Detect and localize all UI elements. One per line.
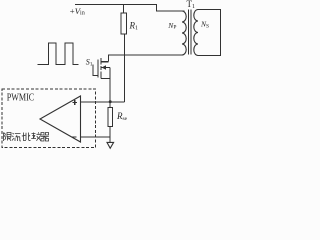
wire comparator minus input <box>81 136 110 138</box>
wire Rs top lead <box>109 102 111 108</box>
wire R1 top lead <box>123 5 125 14</box>
wire gate lead <box>93 65 98 76</box>
secondary winding Ns <box>194 10 198 56</box>
body stub with arrow <box>101 67 109 69</box>
resistor Rse <box>108 108 112 127</box>
wire R1 bottom lead to sense node (crosses drain line) <box>124 34 126 102</box>
core <box>188 10 190 55</box>
channel segment body <box>100 66 102 70</box>
node sense junction line <box>81 101 125 103</box>
器 <box>41 133 49 142</box>
op-amp U1 current-limit comparator <box>40 96 81 142</box>
minus input mark <box>72 136 77 138</box>
比 <box>22 133 31 141</box>
channel segment drain <box>100 58 102 64</box>
transformer T1 <box>167 0 220 56</box>
gate drive square wave <box>38 43 79 65</box>
PWM IC dashed box <box>2 89 96 148</box>
transistor Q1 MOSFET S1 <box>98 58 110 102</box>
wire drain line from primary to MOSFET <box>108 55 182 62</box>
label 限流比较器 (hand-drawn glyphs) <box>4 132 49 141</box>
ground <box>107 142 114 148</box>
流 <box>12 133 14 141</box>
较 <box>31 133 36 139</box>
resistor R1 <box>121 13 126 34</box>
channel segment source <box>100 72 102 79</box>
drain stub <box>101 61 108 63</box>
wire secondary loop <box>198 10 221 56</box>
node +Vin supply rail <box>75 5 185 12</box>
限 <box>4 133 6 142</box>
source/body vertical <box>109 68 111 103</box>
node junction dot <box>109 100 112 103</box>
plus input mark <box>73 100 78 105</box>
source stub <box>101 77 110 79</box>
gate bar <box>97 59 99 77</box>
wire Rs bottom lead <box>109 127 111 143</box>
svg-text:PWMIC: PWMIC <box>7 92 35 104</box>
primary winding Np <box>182 11 186 55</box>
